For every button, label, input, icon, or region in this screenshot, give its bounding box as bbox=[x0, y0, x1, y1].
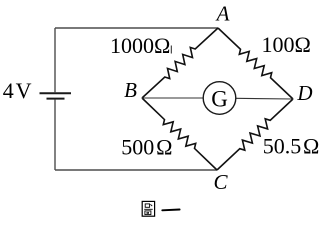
resistor 50.5Ω (edge C-D) bbox=[217, 99, 293, 170]
svg-text:100Ω: 100Ω bbox=[262, 32, 311, 57]
wire: galvanometer to D bbox=[236, 97, 294, 100]
caption 圖一 (Figure 1) drawn as strokes bbox=[142, 201, 179, 216]
svg-text:B: B bbox=[124, 78, 137, 102]
caption glyph 一 bbox=[162, 209, 179, 212]
svg-text:D: D bbox=[296, 81, 312, 105]
caption glyph 圖 inner top box bbox=[145, 204, 149, 207]
svg-text:4 V: 4 V bbox=[3, 78, 32, 103]
svg-text:1000Ω: 1000Ω bbox=[110, 33, 170, 58]
svg-text:A: A bbox=[215, 2, 230, 26]
tick after 1000Ω bbox=[170, 46, 172, 54]
galvanometer G (circle) bbox=[203, 82, 236, 115]
wire: bottom (corner to C) bbox=[55, 169, 217, 171]
battery 4V bbox=[40, 93, 72, 98]
resistor 500Ω (edge B-C) bbox=[142, 98, 217, 170]
caption glyph 圖 outer box bbox=[142, 201, 154, 216]
wire: top (A to top-left corner) bbox=[55, 27, 218, 29]
resistor 100Ω (edge A-D) bbox=[218, 28, 293, 99]
resistor 1000Ω (edge A-B) bbox=[142, 28, 218, 98]
svg-text:G: G bbox=[211, 86, 228, 111]
wire: left lower (battery - to bottom corner) bbox=[54, 100, 56, 170]
svg-text:C: C bbox=[213, 170, 228, 194]
wire: B to galvanometer bbox=[142, 97, 204, 99]
svg-text:500 Ω: 500 Ω bbox=[121, 135, 172, 160]
caption glyph 圖 middle bar bbox=[144, 208, 153, 210]
svg-text:50.5 Ω: 50.5 Ω bbox=[263, 134, 320, 159]
wire: left upper (corner to battery +) bbox=[54, 28, 56, 92]
caption glyph 圖 inner bottom box bbox=[145, 211, 151, 215]
